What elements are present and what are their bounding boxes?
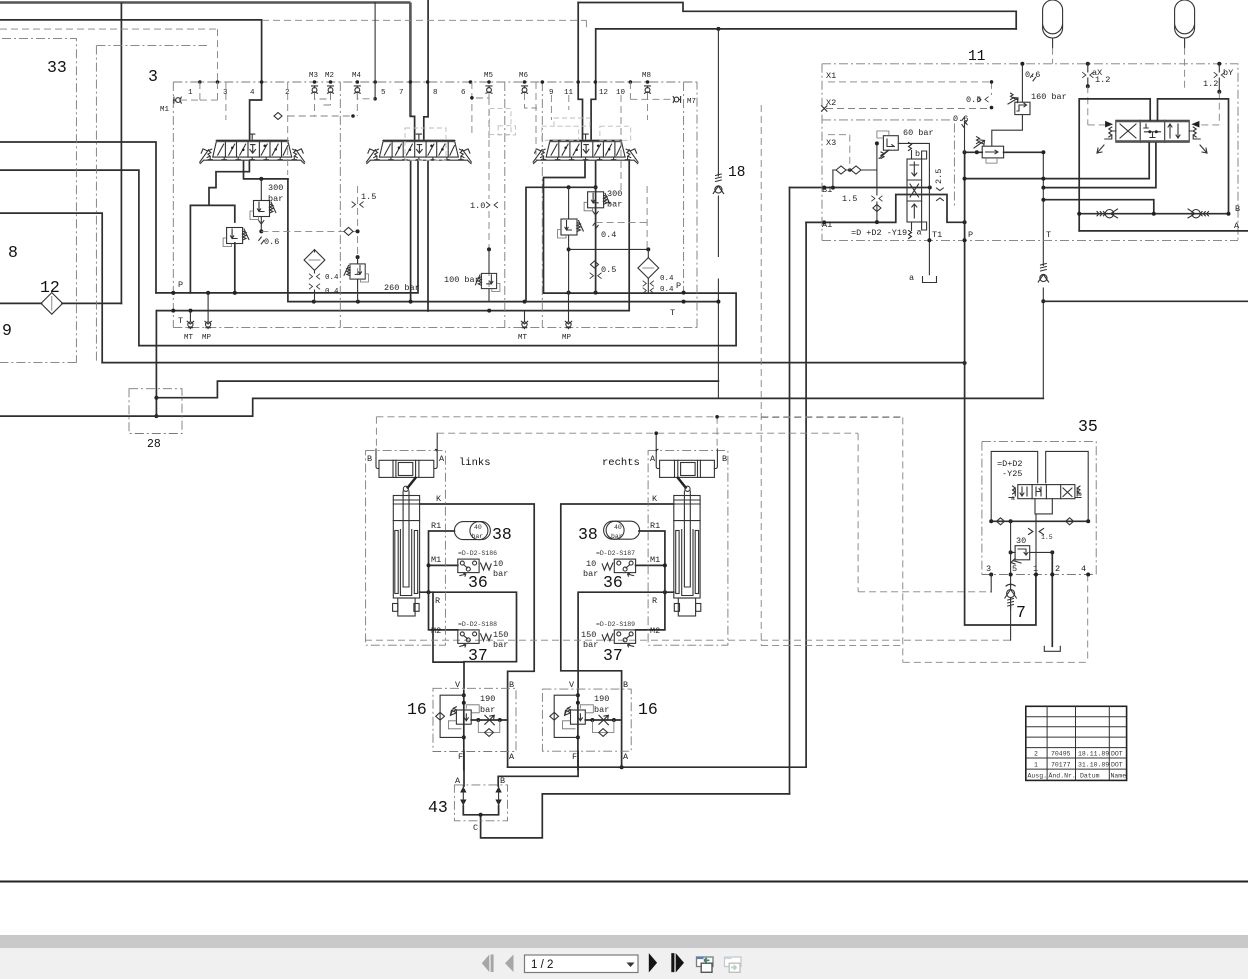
junction 28 box upper bbox=[154, 396, 158, 400]
svg-text:1.0: 1.0 bbox=[470, 201, 485, 211]
junction T line dots bbox=[312, 300, 316, 304]
orifice 0.6 X1 bbox=[978, 97, 989, 102]
svg-text:bar: bar bbox=[480, 705, 495, 715]
svg-text:=D +D2 -Y19: =D +D2 -Y19 bbox=[851, 228, 907, 238]
svg-text:V: V bbox=[455, 680, 461, 690]
spring 37 rechts bbox=[602, 634, 613, 641]
svg-text:37: 37 bbox=[468, 646, 488, 665]
svg-text:T: T bbox=[178, 316, 183, 326]
wire bank2 feed lines bbox=[409, 3, 412, 117]
orifice 1.5 bank2 bbox=[352, 202, 363, 207]
wire box 8 outline bbox=[0, 213, 102, 363]
wire bank1 output left branch bbox=[190, 162, 249, 293]
svg-text:9: 9 bbox=[549, 89, 554, 97]
orifice 1.0 bank3 bbox=[486, 202, 497, 207]
dashed gray top left pilot bbox=[0, 29, 218, 82]
wire P rail bank1 bbox=[156, 162, 418, 293]
junction T rail dots bbox=[171, 309, 175, 313]
svg-text:10: 10 bbox=[616, 89, 626, 97]
wire A rail lower bbox=[508, 766, 806, 768]
svg-text:R1: R1 bbox=[650, 521, 660, 531]
wire R rechts bbox=[578, 592, 674, 688]
dash-dot box section 11 bbox=[822, 64, 1238, 241]
solenoid valve -Y25 bbox=[1009, 485, 1081, 499]
dash-dot box rechts bbox=[648, 451, 728, 646]
icon previous page (disabled) bbox=[505, 955, 514, 973]
svg-text:C: C bbox=[473, 823, 478, 833]
svg-text:7: 7 bbox=[1016, 603, 1026, 622]
svg-text:MP: MP bbox=[202, 334, 212, 342]
svg-text:M5: M5 bbox=[484, 72, 494, 80]
svg-text:A: A bbox=[455, 776, 461, 786]
svg-text:Name: Name bbox=[1111, 773, 1127, 780]
junction dashed rechts B bbox=[715, 415, 719, 419]
svg-text:0.4: 0.4 bbox=[325, 288, 339, 296]
wire P rail feed from left bbox=[0, 142, 156, 293]
check valve right (anti-cavitation) bbox=[1188, 209, 1209, 218]
junction M5 stub bbox=[470, 96, 474, 100]
wire 43 bottom rail bbox=[463, 806, 498, 815]
svg-text:5: 5 bbox=[381, 89, 386, 97]
pressure switch 36 rechts bbox=[614, 559, 635, 576]
dash-dot box 35 bbox=[982, 442, 1096, 575]
wire M3 M2 stub bridge bbox=[315, 93, 376, 99]
svg-text:T1: T1 bbox=[932, 230, 942, 240]
svg-text:2: 2 bbox=[285, 89, 290, 97]
junction R links M-branch bbox=[427, 590, 431, 594]
svg-text:P: P bbox=[178, 280, 183, 290]
valve bank 2 bbox=[366, 134, 471, 164]
svg-text:0.4: 0.4 bbox=[325, 274, 339, 282]
pressure switch 37 links bbox=[458, 630, 479, 647]
svg-text:bar: bar bbox=[493, 569, 508, 579]
60 bar pilot group bbox=[822, 131, 929, 240]
relief valve 100 bar bbox=[475, 273, 500, 291]
filter 12 bbox=[41, 293, 63, 315]
wire T line bank right portion bbox=[288, 179, 719, 302]
svg-text:R: R bbox=[652, 596, 657, 606]
svg-text:K: K bbox=[652, 494, 658, 504]
wire X1 dashed bbox=[828, 82, 992, 95]
svg-text:MT: MT bbox=[518, 334, 528, 342]
svg-text:0.4: 0.4 bbox=[660, 286, 674, 294]
svg-text:P: P bbox=[968, 230, 973, 240]
toolbar background bbox=[0, 948, 1248, 979]
wire links V feed bbox=[433, 592, 464, 662]
table rows bbox=[1026, 717, 1127, 769]
svg-text:36: 36 bbox=[603, 573, 623, 592]
wire drain to filter bank3 bbox=[569, 248, 649, 250]
wire 30 valve connections bbox=[1011, 551, 1053, 553]
wire T1 drop bbox=[928, 240, 930, 275]
relief valve 300bar bank3 bbox=[584, 192, 610, 211]
svg-text:37: 37 bbox=[603, 646, 623, 665]
svg-text:1 / 2: 1 / 2 bbox=[531, 959, 553, 971]
junction rechts M1 bbox=[663, 563, 667, 567]
svg-text:10: 10 bbox=[586, 559, 596, 569]
junction aX lower bbox=[1086, 84, 1090, 88]
bank3 filter assembly bbox=[638, 258, 659, 279]
svg-text:Datum: Datum bbox=[1080, 773, 1100, 780]
wire 43 A feed bbox=[463, 752, 465, 787]
wire check valve 18 riser bbox=[717, 29, 719, 399]
wire reducing valve line bbox=[965, 151, 1044, 153]
wire MP3 stub bbox=[568, 293, 570, 321]
wire M5 stub bbox=[472, 82, 489, 135]
icon next page bbox=[649, 953, 657, 972]
orifice 1.5 sec11 bbox=[872, 196, 883, 201]
wire bank2 output drop bbox=[411, 162, 428, 312]
junction mid rail 5 bbox=[1009, 519, 1013, 523]
valve bank 1 bbox=[200, 134, 305, 164]
dashed port stubs bank1 bbox=[226, 82, 357, 175]
junction B1 checks bbox=[831, 186, 835, 190]
svg-text:12: 12 bbox=[599, 89, 608, 97]
svg-text:B1: B1 bbox=[822, 185, 832, 195]
junction bank3 drain cross bbox=[567, 247, 571, 251]
junction check rail drain bbox=[1152, 212, 1156, 216]
svg-text:T: T bbox=[1046, 230, 1051, 240]
svg-text:M1: M1 bbox=[431, 555, 441, 565]
orifice 0.6v aX pilot bbox=[1030, 74, 1035, 81]
wire port 2 vertical bbox=[1051, 552, 1053, 646]
relief valve 7 bbox=[1005, 584, 1017, 610]
junction X1 bbox=[990, 80, 994, 84]
wire P return wrap bbox=[0, 162, 736, 346]
wire check rail bbox=[1079, 213, 1228, 215]
svg-text:40: 40 bbox=[474, 524, 482, 531]
junction A rail rechts bbox=[620, 765, 624, 769]
svg-text:b: b bbox=[915, 149, 920, 159]
wire B1 to checks bbox=[832, 170, 834, 188]
table columns bbox=[1047, 706, 1109, 780]
wire left vertical to filter 12 bbox=[120, 4, 122, 304]
svg-text:=D-D2-S186: =D-D2-S186 bbox=[458, 550, 497, 557]
svg-text:11: 11 bbox=[968, 49, 985, 65]
svg-text:260 bar: 260 bar bbox=[384, 283, 420, 293]
svg-text:3: 3 bbox=[223, 89, 228, 97]
svg-text:V: V bbox=[569, 680, 575, 690]
junction filter top bank3 bbox=[646, 247, 650, 251]
wire checks line bbox=[833, 143, 877, 222]
junction check rail left bbox=[1077, 212, 1081, 216]
measuring point M5 bbox=[486, 86, 492, 93]
svg-text:M1: M1 bbox=[160, 106, 170, 114]
wire bank3 filter bbox=[647, 249, 649, 292]
svg-text:M3: M3 bbox=[309, 72, 319, 80]
icon previous view bbox=[697, 957, 714, 973]
svg-text:8: 8 bbox=[433, 89, 438, 97]
svg-text:bar: bar bbox=[268, 194, 283, 204]
svg-text:11: 11 bbox=[564, 89, 574, 97]
dash-dot box 16 links bbox=[433, 688, 516, 751]
valve 43 B arrows bbox=[495, 787, 501, 806]
svg-text:1.2: 1.2 bbox=[1095, 75, 1110, 85]
svg-text:100 bar: 100 bar bbox=[444, 275, 480, 285]
junction pilot bbox=[351, 114, 355, 118]
wire bank3 left branch bbox=[526, 187, 596, 301]
svg-text:1.5: 1.5 bbox=[842, 194, 857, 204]
svg-text:a: a bbox=[909, 273, 914, 283]
pressure switch 36 links bbox=[458, 559, 479, 576]
check diamond left bbox=[997, 518, 1005, 525]
relief valve 160 bar bbox=[1008, 93, 1030, 114]
svg-text:1: 1 bbox=[188, 89, 193, 97]
node bY bbox=[1217, 62, 1221, 66]
svg-text:150: 150 bbox=[493, 630, 508, 640]
wire accumulator dashed drops bbox=[1053, 48, 1185, 92]
wire MT3 stub bbox=[524, 311, 526, 321]
svg-text:B: B bbox=[623, 680, 628, 690]
check valve 18 bbox=[713, 174, 723, 194]
svg-text:2: 2 bbox=[1055, 564, 1060, 574]
junction 60bar inlet bbox=[875, 141, 879, 145]
gauge 38 links bbox=[454, 522, 490, 540]
svg-text:7: 7 bbox=[399, 89, 404, 97]
bank1 filter assembly bbox=[304, 250, 325, 271]
svg-text:A1: A1 bbox=[822, 220, 832, 230]
pressure reducing valve 0.6 bbox=[974, 137, 1004, 163]
svg-text:9: 9 bbox=[2, 321, 12, 340]
svg-text:M2: M2 bbox=[325, 72, 334, 80]
orifice 0.6 marks bank1 bbox=[259, 221, 264, 244]
valve 43 dash-dot box bbox=[454, 785, 507, 821]
orifice bY 1.2 bbox=[1218, 64, 1220, 92]
wire port 3 stub bbox=[990, 575, 992, 593]
orifice 0.4 0.4 bank1 bbox=[309, 274, 320, 279]
check diamond pilot bank1 bbox=[274, 113, 282, 120]
junction P rail 2 dots bbox=[567, 291, 571, 295]
wire T drain into 28 box bbox=[155, 311, 157, 417]
check valve left (anti-cavitation) bbox=[1097, 209, 1118, 218]
orifice aX 1.2 bbox=[1087, 64, 1089, 87]
junction P supply mid bbox=[1041, 177, 1045, 181]
svg-text:DOT: DOT bbox=[1111, 762, 1123, 769]
svg-text:160 bar: 160 bar bbox=[1031, 92, 1067, 102]
svg-text:70177: 70177 bbox=[1051, 762, 1071, 769]
wire long line to P vertical bbox=[102, 362, 964, 364]
svg-text:X2: X2 bbox=[826, 98, 836, 108]
measuring point M1 bbox=[174, 97, 181, 103]
relief valve small bank3 bbox=[558, 219, 584, 238]
wire rechts A stub bbox=[655, 433, 657, 449]
wire A loop bbox=[1079, 99, 1150, 231]
spring 36 links bbox=[481, 563, 492, 570]
dashed pilot bank3 bbox=[488, 140, 490, 302]
measuring point MT bank1 bbox=[187, 321, 193, 328]
svg-text:0.4: 0.4 bbox=[601, 230, 616, 240]
wire bank3 drop to 300bar bbox=[595, 162, 597, 293]
svg-text:A: A bbox=[1234, 221, 1240, 231]
tank symbol a bbox=[923, 277, 937, 283]
dash-dot box 33 bbox=[0, 39, 207, 363]
node aX bbox=[1086, 62, 1090, 66]
measuring point MT bank3 bbox=[521, 321, 527, 328]
wire port 5 vertical bbox=[1010, 521, 1012, 586]
wire M4 reference riser bbox=[374, 3, 376, 99]
check diamond A1 pilot bbox=[873, 205, 881, 212]
svg-text:6: 6 bbox=[461, 89, 466, 97]
junction P rail dots bbox=[171, 291, 175, 295]
svg-text:rechts: rechts bbox=[602, 457, 640, 469]
svg-text:MP: MP bbox=[562, 334, 572, 342]
svg-text:1: 1 bbox=[1033, 564, 1038, 574]
pressure switch 37 rechts bbox=[614, 630, 635, 647]
wire bank1 feed from left bbox=[0, 20, 262, 141]
wire bank3 feed 1 bbox=[578, 3, 582, 142]
svg-text:33: 33 bbox=[47, 58, 67, 77]
svg-text:bar: bar bbox=[583, 640, 598, 650]
svg-text:300: 300 bbox=[607, 189, 622, 199]
svg-text:70495: 70495 bbox=[1051, 751, 1071, 758]
dashed top middle pilot bbox=[262, 20, 586, 29]
svg-text:F: F bbox=[458, 752, 463, 762]
svg-text:X1: X1 bbox=[826, 71, 836, 81]
wire C drain path bbox=[481, 794, 790, 838]
wire P vertical section 11 down bbox=[965, 152, 1036, 625]
svg-text:M2: M2 bbox=[650, 626, 660, 636]
spring 36 rechts bbox=[602, 563, 613, 570]
svg-text:bar: bar bbox=[611, 533, 623, 540]
revision table frame bbox=[1026, 706, 1127, 780]
wire relief1 connections bbox=[260, 179, 262, 232]
svg-text:T: T bbox=[670, 308, 675, 318]
svg-text:0.6: 0.6 bbox=[264, 237, 279, 247]
svg-text:35: 35 bbox=[1078, 417, 1098, 436]
junction reduced P left bbox=[963, 150, 967, 154]
gauge 38 rechts bbox=[604, 521, 640, 539]
dash-dot enclosure banks bbox=[173, 82, 697, 328]
check diamond pilot bank2 bbox=[344, 227, 353, 235]
measuring point MP bank3 bbox=[565, 321, 571, 328]
svg-text:bar: bar bbox=[472, 533, 484, 540]
svg-text:28: 28 bbox=[147, 438, 161, 451]
svg-text:a: a bbox=[917, 228, 922, 238]
svg-text:Ausg.: Ausg. bbox=[1028, 773, 1048, 780]
mid rail with checks bbox=[991, 520, 1088, 522]
svg-text:36: 36 bbox=[468, 573, 488, 592]
measuring point M6 bbox=[522, 86, 528, 93]
measuring point M4 bbox=[354, 86, 360, 93]
icon next view (disabled) bbox=[725, 957, 742, 973]
svg-text:X3: X3 bbox=[826, 138, 836, 148]
ports rail dots bbox=[989, 573, 993, 577]
junction bank1 relief branch bbox=[259, 177, 263, 181]
junction P on T1 rail bbox=[963, 238, 967, 242]
wire bank3 small relief bbox=[568, 187, 570, 292]
cylinder links bbox=[376, 449, 437, 616]
svg-text:300: 300 bbox=[268, 183, 283, 193]
svg-text:B: B bbox=[509, 680, 514, 690]
svg-text:A: A bbox=[509, 752, 515, 762]
junction B1 left bbox=[822, 186, 826, 190]
svg-text:18: 18 bbox=[728, 165, 745, 181]
page combo box bbox=[525, 955, 639, 973]
icon last page bbox=[671, 953, 684, 972]
valve 43 A arrows bbox=[460, 787, 466, 806]
junction 30 left bbox=[1009, 550, 1013, 554]
wire A1 rail bbox=[806, 195, 965, 223]
svg-text:1: 1 bbox=[1034, 762, 1038, 769]
wire M7 dashed bbox=[630, 82, 674, 99]
measuring point M2 bbox=[328, 86, 334, 93]
junction 260bar top bbox=[356, 255, 360, 259]
check diamond pilot bank3 bbox=[591, 261, 599, 268]
measuring point M3 bbox=[312, 86, 318, 93]
junction bank3 relief top bbox=[594, 185, 598, 189]
svg-text:M1: M1 bbox=[650, 555, 660, 565]
svg-text:0.6: 0.6 bbox=[1025, 70, 1040, 80]
junction 100bar top bbox=[487, 247, 491, 251]
svg-text:bar: bar bbox=[607, 200, 622, 210]
svg-text:bar: bar bbox=[493, 640, 508, 650]
svg-text:=D+D2: =D+D2 bbox=[997, 459, 1023, 469]
svg-text:M7: M7 bbox=[687, 98, 696, 106]
wire R links bbox=[420, 592, 517, 688]
svg-text:M4: M4 bbox=[352, 72, 362, 80]
svg-text:190: 190 bbox=[594, 694, 609, 704]
pressure reducing valve 30 bbox=[1011, 546, 1030, 564]
wire rechts B stub bbox=[716, 417, 718, 450]
wire MP stub bbox=[207, 293, 209, 321]
relief valve 60 bar bbox=[877, 131, 898, 159]
wire bY pilot dashed bbox=[1201, 92, 1219, 125]
wire bank3 relief connections bbox=[595, 187, 597, 292]
wire X3 dashed bbox=[828, 135, 850, 170]
wire 100bar connections bbox=[488, 249, 490, 301]
measuring point M8 bbox=[645, 86, 651, 93]
svg-text:0.6: 0.6 bbox=[953, 114, 968, 124]
junction relief1 pilot bbox=[259, 229, 263, 233]
wire aX pilot dashed bbox=[1088, 86, 1106, 125]
svg-text:1.2: 1.2 bbox=[1203, 79, 1218, 89]
junction pilot bank2 bbox=[356, 229, 360, 233]
svg-text:=D-D2-S187: =D-D2-S187 bbox=[596, 550, 635, 557]
dash-dot rail junction dots bbox=[198, 80, 202, 84]
wire M branch rechts bbox=[636, 531, 665, 630]
svg-text:M6: M6 bbox=[519, 72, 529, 80]
wire links R1 bbox=[429, 530, 455, 532]
svg-text:0.4: 0.4 bbox=[660, 275, 674, 283]
svg-text:43: 43 bbox=[428, 798, 448, 817]
wire 7 valve drain bbox=[1010, 598, 1012, 641]
svg-text:31.10.89: 31.10.89 bbox=[1078, 762, 1109, 769]
svg-text:M2: M2 bbox=[431, 626, 441, 636]
wire bank1 filter bbox=[314, 250, 316, 302]
junction X2 bbox=[990, 106, 994, 110]
junction links M1 bbox=[427, 563, 431, 567]
svg-text:bY: bY bbox=[1223, 68, 1233, 78]
port X2 mark bbox=[822, 106, 827, 111]
svg-text:18.11.89: 18.11.89 bbox=[1078, 751, 1109, 758]
svg-text:Änd.Nr.: Änd.Nr. bbox=[1049, 772, 1076, 780]
junction mid rail left bbox=[989, 519, 993, 523]
measuring point M7 bbox=[673, 97, 680, 103]
wire links A stub bbox=[436, 433, 438, 449]
svg-text:190: 190 bbox=[480, 694, 495, 704]
svg-text:R: R bbox=[435, 596, 440, 606]
dash-dot box 28 bbox=[129, 389, 182, 434]
wire T rail bank1 bbox=[157, 162, 629, 311]
svg-text:38: 38 bbox=[578, 525, 598, 544]
svg-text:B: B bbox=[1235, 204, 1240, 214]
orifice 0.4 0.4 bank3 bbox=[643, 281, 654, 286]
subplate left rect bbox=[991, 451, 1037, 521]
wire tank line upper from 28 bbox=[156, 381, 718, 398]
svg-text:3: 3 bbox=[148, 67, 158, 86]
hidden pilot rects bank3 bbox=[542, 118, 631, 140]
wire page bottom border bbox=[0, 881, 1248, 883]
